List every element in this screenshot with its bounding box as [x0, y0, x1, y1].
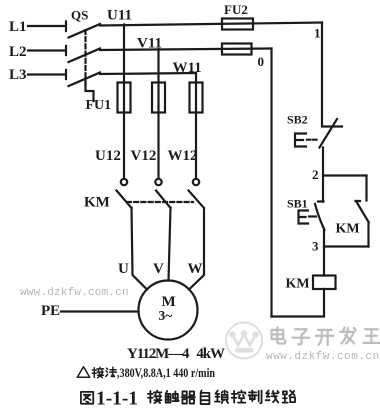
svg-text:QS: QS	[71, 8, 88, 23]
svg-text:W12: W12	[168, 148, 198, 164]
button SB1 actuator	[299, 211, 309, 224]
caption 接触器自锁控制线路	[148, 390, 295, 404]
fuse FU1a	[118, 83, 131, 113]
wire SB2 to SB1	[322, 148, 324, 202]
svg-text:Y112M—4 4kW: Y112M—4 4kW	[127, 346, 225, 362]
caption 图1-1-1	[81, 392, 93, 404]
svg-text:L2: L2	[9, 44, 27, 60]
svg-text:SB2: SB2	[287, 113, 308, 127]
svg-text:L3: L3	[9, 67, 27, 83]
svg-text:V12: V12	[131, 148, 157, 164]
wire L2	[28, 46, 66, 55]
switch QS linkage	[84, 30, 86, 84]
wire PE	[61, 310, 139, 312]
wire U11 row	[100, 23, 322, 26]
wire W11 drop	[195, 74, 197, 179]
svg-text:SB1: SB1	[287, 197, 308, 211]
contactor KM linkage	[127, 201, 193, 203]
contactor KM pole 2 terminal	[155, 179, 161, 185]
fuse FU2b	[222, 44, 252, 55]
fuse FU1b	[152, 83, 165, 113]
wire line 1 drop	[321, 23, 323, 126]
wire motor U	[132, 208, 148, 290]
svg-text:V: V	[153, 261, 164, 277]
contactor KM pole 3 terminal	[193, 179, 199, 185]
wire motor W	[189, 208, 204, 290]
svg-text:0: 0	[258, 54, 265, 69]
contactor KM pole 1 blade	[117, 191, 132, 209]
wire L3	[28, 70, 66, 79]
motor M1	[139, 281, 198, 340]
svg-text:U: U	[118, 261, 129, 277]
svg-text:,380V,8.8A,1 440 r/min: ,380V,8.8A,1 440 r/min	[117, 365, 216, 380]
button SB2 actuator	[295, 134, 306, 147]
switch QS pole 1 blade	[69, 24, 101, 38]
wire line 0 drop	[270, 49, 272, 317]
wire motor V	[169, 208, 171, 281]
wire L1	[28, 22, 66, 32]
value label delta 380V 8.8A 1440 r/min	[77, 367, 116, 378]
fuse FU1c	[190, 83, 203, 113]
svg-text:3: 3	[312, 239, 319, 254]
button SB2 contact	[322, 125, 342, 127]
wire node 3 branch	[324, 245, 369, 247]
svg-text:1: 1	[314, 26, 321, 41]
svg-text:PE: PE	[41, 303, 60, 319]
watermark logo W circle	[226, 323, 262, 359]
wire W11 row	[100, 73, 196, 74]
contact KM aux wire upper	[365, 176, 367, 201]
svg-text:www.dzkfw.com.cn: www.dzkfw.com.cn	[266, 351, 380, 363]
watermark CJK 电子开发王	[272, 327, 380, 345]
fuse FU2a	[222, 19, 253, 30]
svg-text:W11: W11	[173, 60, 202, 76]
wire coil to 0	[272, 289, 325, 317]
contactor KM pole 2 blade	[156, 191, 171, 209]
coil KM	[313, 276, 336, 290]
wire SB1 to node 3	[323, 230, 325, 276]
svg-text:3~: 3~	[159, 308, 173, 323]
contactor KM pole 1 terminal	[121, 179, 127, 185]
svg-text:L1: L1	[9, 19, 27, 35]
contact KM aux blade	[356, 201, 369, 222]
contact KM aux wire lower	[367, 222, 369, 247]
contactor KM pole 3 blade	[189, 191, 205, 209]
switch QS pole 3 blade	[69, 73, 101, 87]
wire U11 drop	[123, 25, 125, 179]
svg-text:KM: KM	[286, 277, 310, 292]
svg-text:U12: U12	[95, 148, 121, 164]
wire V11 drop	[157, 49, 159, 179]
svg-text:KM: KM	[336, 222, 360, 237]
wire node 2 branch	[324, 174, 367, 176]
svg-text:FU2: FU2	[224, 2, 248, 17]
svg-text:FU1: FU1	[86, 98, 112, 113]
svg-text:KM: KM	[84, 195, 110, 211]
svg-text:1-1-1: 1-1-1	[96, 388, 138, 410]
svg-text:2: 2	[312, 167, 319, 182]
switch QS pole 2 blade	[69, 49, 101, 63]
wire V11 row	[100, 49, 272, 51]
button SB1 contact	[315, 202, 325, 231]
svg-text:www.dzkfw.com.cn: www.dzkfw.com.cn	[20, 287, 129, 299]
svg-text:W: W	[188, 261, 203, 277]
svg-text:U11: U11	[107, 8, 132, 24]
